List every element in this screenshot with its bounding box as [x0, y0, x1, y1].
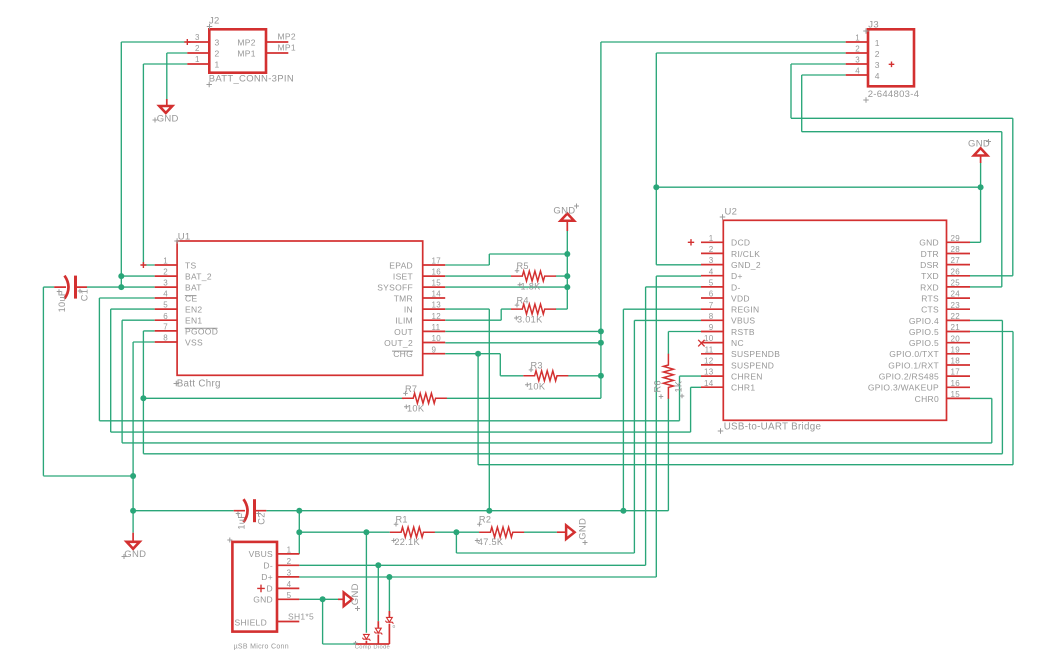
svg-text:GPIO.3/WAKEUP: GPIO.3/WAKEUP [868, 383, 939, 393]
svg-text:24: 24 [951, 290, 961, 299]
svg-text:11: 11 [432, 323, 441, 332]
svg-text:SH1*5: SH1*5 [288, 612, 314, 622]
svg-text:SHIELD: SHIELD [235, 618, 268, 628]
svg-text:7: 7 [163, 323, 168, 332]
svg-text:1: 1 [855, 34, 860, 43]
svg-text:10K: 10K [407, 403, 425, 413]
svg-text:1: 1 [709, 234, 714, 243]
svg-text:5: 5 [709, 279, 714, 288]
svg-text:R4: R4 [517, 296, 529, 306]
svg-text:CHR0: CHR0 [915, 394, 939, 404]
svg-text:12: 12 [432, 312, 442, 321]
svg-text:DCD: DCD [731, 238, 750, 248]
svg-text:3: 3 [287, 568, 292, 577]
svg-text:GPIO.1/RXT: GPIO.1/RXT [888, 360, 939, 370]
svg-text:EN2: EN2 [185, 305, 202, 315]
svg-text:GPIO.5: GPIO.5 [909, 338, 939, 348]
svg-text:R2: R2 [479, 515, 491, 525]
svg-text:12: 12 [704, 357, 714, 366]
svg-text:GPIO.2/RS485: GPIO.2/RS485 [879, 372, 939, 382]
svg-text:U2: U2 [725, 207, 738, 218]
svg-text:PGOOD: PGOOD [185, 326, 218, 336]
svg-text:VBUS: VBUS [731, 316, 755, 326]
svg-text:10uF: 10uF [57, 290, 67, 312]
svg-text:GPIO.4: GPIO.4 [909, 316, 939, 326]
svg-text:2: 2 [215, 49, 220, 59]
svg-text:13: 13 [704, 368, 714, 377]
svg-text:R5: R5 [517, 261, 529, 271]
svg-text:BAT_2: BAT_2 [185, 272, 212, 282]
svg-text:13: 13 [432, 301, 442, 310]
svg-text:SUSPEND: SUSPEND [731, 360, 774, 370]
svg-text:CTS: CTS [921, 305, 939, 315]
svg-text:2: 2 [195, 44, 200, 53]
svg-text:27: 27 [951, 256, 961, 265]
svg-text:MP2: MP2 [278, 32, 296, 42]
svg-text:GND: GND [157, 113, 179, 124]
svg-text:2: 2 [287, 557, 292, 566]
svg-text:29: 29 [951, 234, 961, 243]
svg-text:4: 4 [287, 580, 292, 589]
svg-text:RXD: RXD [920, 282, 939, 292]
svg-text:D-: D- [731, 282, 741, 292]
svg-text:GPIO.5: GPIO.5 [909, 327, 939, 337]
svg-text:GND: GND [968, 139, 990, 150]
svg-text:USB-to-UART Bridge: USB-to-UART Bridge [724, 422, 822, 433]
svg-text:1uF: 1uF [236, 513, 246, 530]
svg-text:5: 5 [163, 301, 168, 310]
svg-text:14: 14 [432, 290, 442, 299]
svg-text:OUT: OUT [394, 327, 413, 337]
svg-text:3: 3 [215, 38, 220, 48]
svg-text:1: 1 [287, 545, 292, 554]
svg-text:20: 20 [951, 334, 961, 343]
svg-text:NC: NC [731, 338, 744, 348]
svg-text:C2: C2 [257, 512, 267, 524]
svg-text:SYSOFF: SYSOFF [377, 283, 413, 293]
svg-text:16: 16 [432, 268, 442, 277]
svg-text:9: 9 [432, 345, 437, 354]
svg-text:GND: GND [553, 206, 575, 217]
svg-text:REGIN: REGIN [731, 305, 759, 315]
svg-text:4: 4 [709, 267, 714, 276]
svg-text:28: 28 [951, 245, 961, 254]
svg-text:3: 3 [195, 33, 200, 42]
svg-text:2: 2 [709, 245, 714, 254]
svg-text:15: 15 [432, 279, 442, 288]
svg-text:21: 21 [951, 323, 961, 332]
svg-text:J2: J2 [209, 16, 220, 27]
svg-text:3: 3 [709, 256, 714, 265]
svg-text:6: 6 [163, 312, 168, 321]
svg-text:3: 3 [875, 60, 880, 70]
svg-text:TMR: TMR [394, 293, 413, 303]
svg-text:7: 7 [709, 301, 714, 310]
svg-text:VDD: VDD [731, 293, 750, 303]
svg-text:2: 2 [875, 49, 880, 59]
svg-text:GND_2: GND_2 [731, 260, 761, 270]
svg-text:1: 1 [163, 257, 168, 266]
svg-text:RSTB: RSTB [731, 327, 755, 337]
svg-text:16: 16 [951, 379, 961, 388]
svg-text:23: 23 [951, 301, 961, 310]
svg-text:2-644803-4: 2-644803-4 [868, 89, 920, 100]
svg-text:GND: GND [253, 595, 273, 605]
svg-text:R3: R3 [531, 360, 543, 370]
svg-text:CE: CE [185, 293, 197, 303]
svg-text:25: 25 [951, 279, 961, 288]
svg-text:BAT: BAT [185, 283, 202, 293]
svg-text:RTS: RTS [921, 294, 939, 304]
svg-text:8: 8 [163, 334, 168, 343]
svg-text:DTR: DTR [921, 249, 939, 259]
svg-text:GND: GND [578, 518, 589, 540]
svg-text:U1: U1 [178, 232, 191, 243]
svg-text:EPAD: EPAD [389, 260, 413, 270]
svg-text:CHR1: CHR1 [731, 383, 755, 393]
svg-text:9: 9 [709, 323, 714, 332]
svg-text:Batt Chrg: Batt Chrg [177, 378, 221, 389]
svg-text:Comp Diode: Comp Diode [355, 644, 390, 650]
svg-text:VSS: VSS [185, 337, 203, 347]
svg-text:MP2: MP2 [237, 38, 255, 48]
svg-text:R1: R1 [396, 515, 408, 525]
svg-text:o: o [393, 624, 396, 630]
svg-text:22: 22 [951, 312, 961, 321]
svg-text:µSB Micro Conn: µSB Micro Conn [234, 644, 289, 651]
svg-text:4: 4 [163, 290, 168, 299]
svg-text:C1: C1 [79, 289, 89, 301]
svg-text:10K: 10K [528, 381, 546, 391]
svg-text:19: 19 [951, 345, 961, 354]
svg-text:D+: D+ [261, 572, 273, 582]
svg-text:18: 18 [951, 357, 961, 366]
svg-text:2: 2 [855, 45, 860, 54]
svg-text:BATT_CONN-3PIN: BATT_CONN-3PIN [209, 74, 294, 85]
svg-text:10: 10 [432, 334, 442, 343]
svg-text:1.8K: 1.8K [521, 281, 542, 291]
svg-text:4: 4 [855, 67, 860, 76]
svg-text:2: 2 [163, 268, 168, 277]
svg-text:GND: GND [124, 549, 146, 560]
svg-text:3: 3 [855, 56, 860, 65]
svg-text:6: 6 [709, 290, 714, 299]
svg-text:DSR: DSR [920, 260, 939, 270]
svg-text:26: 26 [951, 267, 961, 276]
svg-text:CHREN: CHREN [731, 372, 763, 382]
svg-text:VBUS: VBUS [249, 549, 273, 559]
svg-text:TXD: TXD [921, 271, 939, 281]
svg-text:15: 15 [951, 390, 961, 399]
svg-text:MP1: MP1 [237, 49, 255, 59]
svg-text:ILIM: ILIM [395, 316, 413, 326]
svg-text:EN1: EN1 [185, 316, 202, 326]
svg-text:J3: J3 [868, 20, 879, 31]
svg-text:47.5K: 47.5K [478, 537, 504, 547]
svg-text:1: 1 [875, 38, 880, 48]
svg-text:MP1: MP1 [278, 43, 296, 53]
svg-text:OUT_2: OUT_2 [384, 338, 413, 348]
svg-text:3: 3 [163, 279, 168, 288]
svg-text:GPIO.0/TXT: GPIO.0/TXT [889, 349, 939, 359]
svg-text:GND: GND [919, 238, 939, 248]
svg-text:17: 17 [432, 257, 442, 266]
svg-text:1: 1 [215, 60, 220, 70]
svg-text:SUSPENDB: SUSPENDB [731, 349, 780, 359]
svg-text:IN: IN [404, 305, 413, 315]
svg-text:8: 8 [709, 312, 714, 321]
svg-text:5: 5 [287, 591, 292, 600]
svg-text:D-: D- [263, 561, 273, 571]
svg-text:D+: D+ [731, 271, 743, 281]
svg-text:14: 14 [704, 379, 714, 388]
svg-text:11: 11 [705, 345, 714, 354]
svg-text:3.01K: 3.01K [517, 315, 543, 325]
svg-text:17: 17 [951, 368, 961, 377]
svg-text:1: 1 [195, 55, 200, 64]
svg-text:1K: 1K [674, 380, 684, 392]
svg-text:GND: GND [350, 583, 361, 605]
svg-text:4: 4 [875, 71, 880, 81]
svg-text:22.1K: 22.1K [394, 537, 420, 547]
svg-text:CHG: CHG [393, 349, 413, 359]
svg-text:RI/CLK: RI/CLK [731, 249, 760, 259]
svg-text:R6: R6 [652, 380, 662, 392]
svg-text:D: D [267, 584, 273, 594]
svg-text:ISET: ISET [393, 272, 413, 282]
svg-text:R7: R7 [405, 384, 417, 394]
svg-text:TS: TS [185, 260, 196, 270]
svg-text:10: 10 [704, 334, 714, 343]
